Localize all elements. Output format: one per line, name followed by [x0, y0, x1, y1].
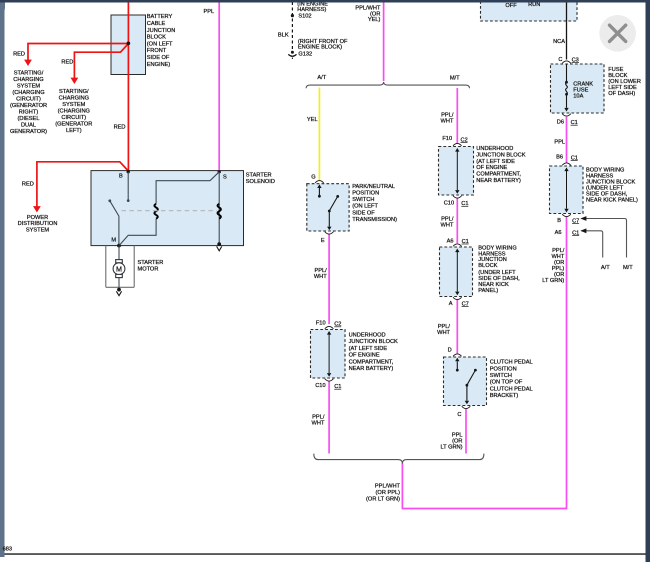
- connector G park/neutral: [315, 181, 324, 183]
- wire PPL/WHT underhood to body wiring block: [456, 198, 458, 243]
- connector E park/neutral: [325, 232, 334, 234]
- svg-text:PPL/WHT: PPL/WHT: [312, 415, 325, 427]
- connector A C7 (middle body block): [453, 297, 462, 299]
- wire BLK dashed (S102 to G132): [291, 2, 293, 51]
- svg-text:S102: S102: [298, 14, 311, 20]
- svg-text:PPL/WHT: PPL/WHT: [314, 268, 327, 280]
- arrow generator right: [24, 60, 32, 66]
- starter motor lead: [118, 246, 120, 260]
- bottom gathering brace: [314, 454, 484, 464]
- svg-text:M/T: M/T: [450, 75, 460, 81]
- svg-text:STARTING/CHARGINGSYSTEM(CHARGI: STARTING/CHARGINGSYSTEM(CHARGINGCIRCUIT)…: [55, 89, 92, 134]
- connector C C3 fuse block: [562, 61, 571, 63]
- connector D6 C1 fuse block: [562, 114, 571, 116]
- viewer chrome: left edge: [0, 0, 5, 557]
- close button: [599, 15, 636, 52]
- wire RED branch to power distribution: [37, 162, 128, 207]
- solenoid M pin dot: [117, 244, 121, 248]
- svg-text:D: D: [448, 348, 452, 354]
- connector D clutch: [453, 354, 462, 356]
- connector F10 C2 (M/T underhood): [453, 143, 462, 145]
- connector B6 C1 (right body block): [562, 163, 571, 165]
- svg-text:C: C: [558, 57, 562, 63]
- svg-text:STARTERSOLENOID: STARTERSOLENOID: [246, 172, 275, 185]
- connector F10 C2 (A/T underhood): [325, 326, 334, 328]
- wire PPL fuse block to body wiring block right: [566, 117, 568, 163]
- svg-text:G132: G132: [298, 52, 312, 58]
- ground arrow under solenoid S: [217, 246, 222, 250]
- svg-text:F10: F10: [442, 136, 452, 142]
- wire RED branch to generator right: [28, 44, 128, 61]
- body wiring harness junction block box (right): [550, 166, 584, 214]
- ground arrow under motor: [116, 291, 121, 295]
- svg-text:C10: C10: [444, 201, 454, 207]
- svg-text:(IN ENGINEHARNESS): (IN ENGINEHARNESS): [297, 1, 328, 13]
- svg-text:PPL: PPL: [554, 140, 565, 146]
- coil 1: [154, 204, 157, 219]
- body wiring block right: through arrow: [564, 168, 568, 213]
- wire PPL (OR LT GRN) clutch C to bottom brace: [465, 409, 467, 454]
- underhood block A/T: through arrow: [327, 331, 331, 377]
- wire RED battery feed (top to solenoid B): [127, 2, 129, 171]
- wire PPL/WHT right column down, bottom run to brace stem: [402, 217, 566, 509]
- solenoid switch blade: [108, 199, 111, 202]
- connector C10 C1 (A/T underhood): [325, 379, 334, 381]
- motor ground dot: [117, 288, 121, 292]
- wire PPL/WHT main feed (top to A/T-M/T brace): [383, 2, 385, 81]
- connector C10 C1 (M/T underhood): [453, 196, 462, 198]
- park/neutral switch internals: [317, 184, 339, 230]
- svg-text:PPL/WHT: PPL/WHT: [441, 217, 454, 229]
- ground G132: [291, 51, 294, 54]
- svg-text:D6: D6: [557, 120, 564, 126]
- connector C clutch: [462, 406, 471, 408]
- connector B C7 (right body block): [562, 214, 571, 216]
- solenoid hold coil feed: [156, 172, 219, 204]
- svg-text:M/T: M/T: [623, 265, 633, 271]
- solenoid pin B dot: [127, 170, 130, 173]
- wire ref A/T (from A6 C1): [581, 231, 602, 258]
- park/neutral position switch box: [307, 184, 349, 231]
- wire PPL/WHT body wiring block to clutch switch D: [456, 300, 458, 354]
- svg-text:S: S: [223, 175, 227, 181]
- svg-text:RED: RED: [61, 60, 73, 66]
- mechanical dashed link: [122, 210, 218, 212]
- viewer chrome: top edge: [0, 0, 650, 3]
- wire PPL (top to solenoid S): [218, 2, 220, 171]
- arrow ref A/T: [580, 228, 586, 233]
- svg-text:C10: C10: [315, 383, 325, 389]
- fuse block internals: crank fuse: [564, 64, 568, 112]
- svg-text:PPL/WHT: PPL/WHT: [437, 324, 450, 336]
- body wiring harness junction block box (middle): [440, 247, 473, 297]
- svg-text:RED: RED: [114, 125, 126, 131]
- svg-text:A: A: [449, 301, 453, 307]
- svg-text:RED: RED: [22, 181, 34, 187]
- svg-text:(RIGHT FRONT OFENGINE BLOCK): (RIGHT FRONT OFENGINE BLOCK): [298, 39, 348, 51]
- svg-text:B6: B6: [556, 155, 563, 161]
- arrow power distribution: [33, 206, 41, 212]
- viewer chrome: right edge: [646, 0, 650, 562]
- wire PPL/WHT underhood block A/T to bottom brace: [328, 381, 330, 453]
- svg-text:A/T: A/T: [317, 75, 326, 81]
- clutch pedal position switch box: [444, 357, 487, 406]
- svg-text:B: B: [557, 218, 561, 224]
- svg-text:PPL/WHT: PPL/WHT: [441, 113, 454, 125]
- svg-text:BLK: BLK: [278, 32, 289, 38]
- underhood junction block box (M/T): [439, 147, 474, 196]
- svg-text:F10: F10: [316, 320, 326, 326]
- svg-text:NCA: NCA: [553, 39, 565, 45]
- underhood block M/T: through arrow: [455, 148, 459, 194]
- solenoid B contact stem: [127, 172, 129, 200]
- svg-text:G: G: [311, 175, 315, 181]
- svg-text:PPL: PPL: [204, 9, 215, 15]
- svg-text:M: M: [116, 264, 122, 273]
- wire ref M/T (from B C7): [581, 219, 626, 258]
- wire PPL/WHT M/T branch (brace to underhood block): [456, 88, 458, 143]
- arrow ref M/T: [580, 216, 586, 221]
- junction dot battery block: [127, 42, 131, 46]
- arrow generator left: [71, 78, 79, 84]
- wire NCA black (ignition to fuse block): [566, 2, 568, 60]
- solenoid S internal line: [218, 172, 220, 244]
- starter motor loop: [106, 246, 134, 287]
- svg-text:RUN: RUN: [528, 2, 540, 8]
- wire RED branch to generator left: [74, 44, 128, 79]
- svg-text:YEL: YEL: [307, 117, 318, 123]
- underhood junction block box (A/T): [311, 330, 346, 379]
- splice S102: [291, 14, 294, 17]
- svg-text:RED: RED: [13, 52, 25, 58]
- ignition switch box (dashed): [481, 1, 578, 21]
- starter motor symbol: [113, 260, 125, 278]
- brace A/T-M/T split: [306, 82, 469, 88]
- svg-text:E: E: [321, 238, 325, 244]
- svg-text:OFF: OFF: [505, 3, 517, 9]
- starter solenoid box: [91, 171, 244, 246]
- svg-text:A6: A6: [447, 238, 454, 244]
- svg-text:C: C: [457, 412, 461, 418]
- solenoid pin S dot: [218, 170, 221, 173]
- bottom rule: [5, 553, 646, 555]
- wire PPL/WHT park/neutral E to underhood block A/T: [328, 234, 330, 324]
- clutch switch internals: [455, 358, 477, 405]
- svg-text:A6: A6: [555, 230, 562, 236]
- chrome overlay top band: [14, 0, 636, 3]
- battery cable junction block: [111, 15, 146, 75]
- coil 2: [218, 204, 221, 219]
- body wiring block middle: through arrow: [455, 249, 459, 296]
- fuse block box: [551, 64, 605, 113]
- svg-text:M: M: [111, 238, 116, 244]
- svg-text:B: B: [119, 173, 123, 179]
- wire YEL (brace to park/neutral G): [318, 88, 320, 181]
- svg-text:A/T: A/T: [601, 265, 610, 271]
- connector A6 C1 (middle body block): [453, 244, 462, 246]
- svg-text:683: 683: [3, 546, 12, 552]
